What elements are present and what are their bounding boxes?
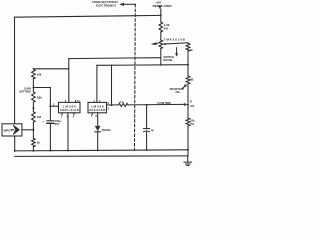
svg-text:8: 8	[108, 102, 110, 105]
svg-text:+: +	[43, 120, 45, 124]
arrow switch indicator	[175, 48, 178, 57]
wire +9V vertical lower	[160, 49, 162, 66]
svg-text:AMPLIFIER: AMPLIFIER	[60, 108, 79, 112]
resistor R1 2.2k	[159, 22, 163, 32]
label D1	[101, 128, 111, 132]
svg-text:TMK2016B: TMK2016B	[164, 37, 185, 41]
wire R6 to ground bus	[32, 147, 34, 151]
pin tick U1 top aux	[75, 101, 77, 103]
svg-text:8: 8	[95, 115, 97, 118]
wire jack line	[22, 129, 34, 131]
wire R5 to jack node	[32, 122, 34, 130]
resistor R3 10k	[32, 69, 36, 79]
wire signal top	[124, 3, 135, 5]
arrow pot callout	[182, 84, 187, 89]
wire bus C	[33, 68, 68, 70]
wire left frame	[14, 17, 16, 124]
wire +9V vertical upper	[160, 9, 162, 22]
label pin 2	[53, 103, 55, 106]
label gain setting	[19, 86, 31, 93]
label pot	[170, 87, 185, 94]
wire top frame	[15, 15, 161, 17]
arrow +9V down	[158, 5, 162, 9]
resistor R4 56k	[32, 92, 36, 102]
svg-text:56k: 56k	[37, 96, 42, 100]
arrow trimpot wiper	[154, 42, 159, 45]
wire R4 to R5	[32, 102, 34, 112]
svg-text:7: 7	[91, 115, 93, 118]
wire output line	[128, 103, 184, 106]
wire right column mid	[187, 51, 189, 76]
wire bus B drop	[111, 65, 113, 105]
label R3	[37, 73, 42, 77]
svg-text:SETTING: SETTING	[19, 89, 31, 93]
label R9	[190, 119, 195, 126]
label C2 value	[150, 128, 153, 132]
trimmer R2 with wiper	[159, 40, 163, 49]
wire U2 output stub	[107, 104, 119, 106]
resistor R8 1k	[186, 43, 190, 51]
label R1 value	[164, 23, 170, 31]
wire C1 to ground bus	[49, 123, 51, 150]
pin tick U2 bottom aux	[91, 113, 93, 115]
junction dot gain node	[32, 87, 34, 89]
resistor R7 4.7 ohm	[119, 103, 128, 106]
junction dot right ground bus	[187, 149, 189, 151]
label switch	[163, 55, 174, 62]
resistor R5 1M	[32, 112, 36, 122]
svg-text:+: +	[146, 125, 148, 128]
svg-text:20k: 20k	[175, 90, 180, 94]
wire pin2 stub	[50, 105, 58, 107]
junction dot jack node	[32, 129, 34, 131]
input jack box	[2, 124, 22, 136]
wire between R1 and trimpot	[160, 32, 162, 40]
label NB	[152, 42, 156, 46]
label U1 top pins	[65, 100, 80, 103]
svg-text:SPEAKER: SPEAKER	[89, 108, 105, 112]
junction dot TMK node	[164, 43, 166, 45]
svg-text:1k: 1k	[190, 48, 194, 52]
junction dots ground bus	[14, 149, 148, 152]
node +9V supply label	[153, 1, 173, 8]
IC U2 box	[88, 102, 107, 112]
label U1 bottom pins	[61, 115, 75, 118]
wire gain node to cap column	[33, 87, 50, 89]
label R4	[37, 96, 42, 100]
label pot right	[190, 100, 195, 107]
label U2 bottom pins	[91, 115, 97, 118]
junction dot frame/+9V	[160, 14, 162, 16]
junction dot pin2 node	[49, 105, 51, 107]
wire U2 top feed	[96, 65, 98, 102]
wire U1 ground pin	[67, 113, 69, 151]
svg-text:100µ: 100µ	[55, 119, 61, 123]
svg-text:ELECTRONICS: ELECTRONICS	[96, 3, 116, 7]
wire bus A	[69, 57, 161, 60]
label C1 value	[55, 119, 61, 126]
junction dot bus B right	[187, 64, 189, 66]
label R6	[37, 140, 41, 144]
pin ticks U1 bottom aux	[62, 113, 74, 115]
ground	[184, 162, 192, 165]
svg-text:5%: 5%	[164, 27, 169, 31]
label C1 plus	[43, 120, 45, 124]
svg-text:NB: NB	[190, 79, 194, 82]
resistor R6 1k	[32, 130, 36, 147]
label U2	[89, 105, 105, 112]
svg-text:1N4001: 1N4001	[101, 128, 111, 132]
svg-text:≈0.5W RMS: ≈0.5W RMS	[157, 101, 172, 105]
svg-text:5: 5	[73, 115, 75, 118]
svg-text:R: R	[190, 100, 192, 103]
wire dashed signal line	[134, 4, 137, 150]
junction dot wiper	[187, 104, 189, 106]
svg-text:5%: 5%	[190, 122, 194, 126]
wire R3 to node	[32, 79, 34, 92]
svg-text:1M: 1M	[37, 115, 42, 119]
wire TMK node horizontal	[162, 43, 189, 44]
arrow signal left	[119, 3, 124, 6]
svg-text:3: 3	[61, 115, 63, 118]
jack symbol	[12, 125, 20, 134]
label input	[4, 128, 13, 132]
wire box1 top feed	[68, 59, 70, 103]
label TMK2016B	[164, 37, 185, 41]
wire pot to wiper	[187, 84, 189, 118]
label R7	[119, 100, 123, 104]
svg-text:4.7: 4.7	[119, 100, 123, 104]
svg-text:25V: 25V	[55, 122, 60, 126]
svg-text:10k: 10k	[37, 73, 42, 77]
node from-preamp label	[92, 0, 118, 7]
svg-text:DETAIL: DETAIL	[163, 58, 173, 62]
wire ground bus 2	[15, 156, 188, 162]
label U2 right pins	[108, 102, 110, 111]
label U1	[60, 105, 79, 112]
label R5	[37, 115, 42, 119]
diode D1	[95, 113, 101, 151]
wire right column top	[187, 42, 189, 45]
junction dot output node	[111, 104, 113, 106]
junction dot output cap node	[146, 104, 148, 106]
label pot aux	[190, 79, 194, 82]
IC U1 box	[59, 102, 81, 112]
potentiometer R10 20k	[186, 76, 190, 84]
wire right column bottom	[187, 126, 189, 156]
wire bus B	[97, 64, 188, 67]
capacitor C1 electrolytic	[47, 121, 54, 124]
capacitor C2	[144, 105, 150, 150]
svg-text:3: 3	[108, 108, 110, 111]
label output power	[157, 101, 172, 105]
label R8	[190, 48, 194, 52]
label U2 top pins	[93, 100, 101, 103]
wire input box to ground bus	[14, 136, 16, 151]
resistor R9 15k	[186, 118, 190, 126]
svg-text:47k: 47k	[190, 105, 195, 108]
arrow pot wiper	[184, 103, 188, 106]
svg-text:1µ: 1µ	[150, 128, 153, 132]
junction dot input node upper	[32, 107, 34, 109]
wire cap column vertical	[49, 88, 51, 121]
svg-text:REGULATED: REGULATED	[153, 4, 173, 8]
svg-text:1k: 1k	[37, 140, 41, 144]
label C2 plus	[146, 125, 148, 128]
wire ground bus 1	[15, 150, 188, 151]
